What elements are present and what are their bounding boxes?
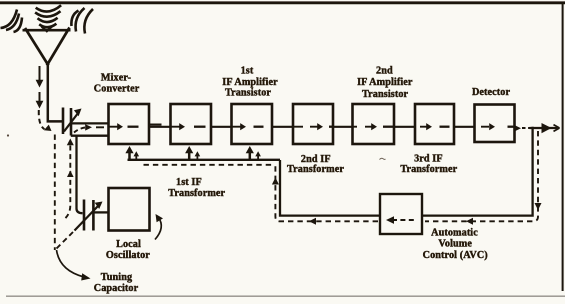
label 2nd IF amplifier transistor bbox=[357, 65, 413, 99]
bottom faint rule bbox=[6, 295, 565, 297]
top border line bbox=[0, 1, 565, 4]
arrows on dashed AVC path bbox=[272, 178, 542, 225]
right border line bbox=[562, 2, 564, 291]
box 4 (2nd IF transformer stage) bbox=[293, 104, 333, 144]
svg-text:Tuning: Tuning bbox=[101, 272, 132, 283]
label 2nd IF transformer bbox=[287, 154, 344, 175]
box 5 2nd IF amplifier transistor bbox=[353, 104, 395, 144]
antenna triangle bbox=[23, 28, 71, 66]
label tuning capacitor bbox=[94, 272, 139, 294]
svg-text:Capacitor: Capacitor bbox=[94, 283, 139, 294]
AGC arrows into box2 bbox=[188, 153, 191, 162]
dashed tuning gang diagonal bbox=[57, 232, 74, 249]
svg-text:Transformer: Transformer bbox=[287, 164, 344, 175]
svg-text:IF Amplifier: IF Amplifier bbox=[222, 77, 278, 88]
wire LO cap to LO box bbox=[95, 211, 110, 213]
label 1st IF transformer bbox=[168, 177, 225, 199]
label 1st IF amplifier transistor bbox=[222, 66, 278, 99]
dashed receive-signal line with down arrows bbox=[39, 66, 45, 129]
wires between boxes bbox=[149, 125, 475, 127]
signal arrows inside boxes bbox=[110, 126, 515, 128]
svg-text:Oscillator: Oscillator bbox=[106, 250, 150, 261]
curved arrow to Tuning Capacitor label bbox=[57, 250, 85, 277]
tuning capacitor (antenna section) bbox=[63, 108, 71, 136]
output arrowheads bbox=[515, 123, 552, 133]
svg-text:Transformer: Transformer bbox=[168, 188, 225, 199]
scan speck tilde bbox=[380, 158, 386, 159]
svg-text:Transformer: Transformer bbox=[400, 164, 457, 175]
box 1 mixer-converter bbox=[109, 104, 150, 144]
label local oscillator bbox=[106, 239, 150, 261]
label 3rd IF transformer bbox=[400, 154, 457, 176]
AVC solid feedback wire (tap down, left, up, bus) bbox=[280, 127, 533, 216]
variable capacitor arrow bbox=[64, 113, 79, 132]
box 6 (3rd IF transformer stage) bbox=[415, 104, 454, 144]
svg-text:Transistor: Transistor bbox=[225, 87, 271, 98]
antenna wave arcs left bbox=[1, 10, 23, 33]
LO variable capacitor arrow bbox=[75, 206, 99, 231]
label automatic volume control bbox=[423, 227, 488, 261]
svg-text:Automatic: Automatic bbox=[431, 227, 478, 238]
box automatic volume control bbox=[380, 194, 422, 234]
svg-text:Mixer-: Mixer- bbox=[101, 72, 132, 83]
dashed AVC line left of box bbox=[275, 166, 378, 221]
svg-text:Detector: Detector bbox=[472, 87, 511, 98]
curved annotation arrow to LO box bbox=[155, 218, 161, 240]
svg-text:1st: 1st bbox=[241, 66, 254, 77]
arrow inside AVC box bbox=[392, 219, 414, 221]
dashed tuning gang line (vertical) bbox=[54, 135, 56, 251]
antenna wave arcs center bbox=[35, 5, 61, 31]
wire LO input into mixer bbox=[71, 135, 109, 137]
AGC arrows into box3 bbox=[249, 153, 252, 162]
antenna lead wire bbox=[48, 62, 63, 121]
dashed oscillator signal line with up arrows bbox=[64, 146, 70, 220]
wire capacitor to mixer (RF input) bbox=[72, 122, 109, 124]
svg-text:Local: Local bbox=[116, 239, 141, 250]
AGC arrows into box1 bbox=[128, 153, 131, 162]
box 2 (1st IF transformer stage) bbox=[171, 104, 212, 144]
detector output wire bbox=[515, 127, 518, 129]
box 7 detector bbox=[475, 105, 515, 143]
label mixer-converter bbox=[94, 72, 140, 94]
svg-text:IF Amplifier: IF Amplifier bbox=[357, 77, 413, 88]
box 3 1st IF amplifier transistor bbox=[232, 104, 273, 144]
svg-text:2nd: 2nd bbox=[376, 65, 393, 76]
svg-text:Transistor: Transistor bbox=[362, 89, 408, 100]
svg-text:3rd IF: 3rd IF bbox=[414, 154, 443, 165]
svg-text:Volume: Volume bbox=[438, 238, 472, 249]
dashed AGC bus under boxes bbox=[144, 164, 273, 166]
box local oscillator bbox=[109, 188, 150, 231]
svg-text:1st IF: 1st IF bbox=[176, 177, 202, 188]
solid AGC bus under boxes bbox=[128, 159, 281, 161]
svg-text:Control (AVC): Control (AVC) bbox=[423, 250, 488, 261]
svg-text:Converter: Converter bbox=[94, 84, 140, 95]
scan speck dot bbox=[7, 134, 9, 136]
dashed AVC feedback line right segment bbox=[425, 131, 538, 221]
wire mixer to local oscillator bbox=[77, 136, 83, 214]
dashed signal arrow into mixer bbox=[74, 127, 86, 132]
antenna wave arcs right bbox=[71, 8, 93, 34]
local oscillator tuning capacitor bbox=[84, 200, 93, 231]
